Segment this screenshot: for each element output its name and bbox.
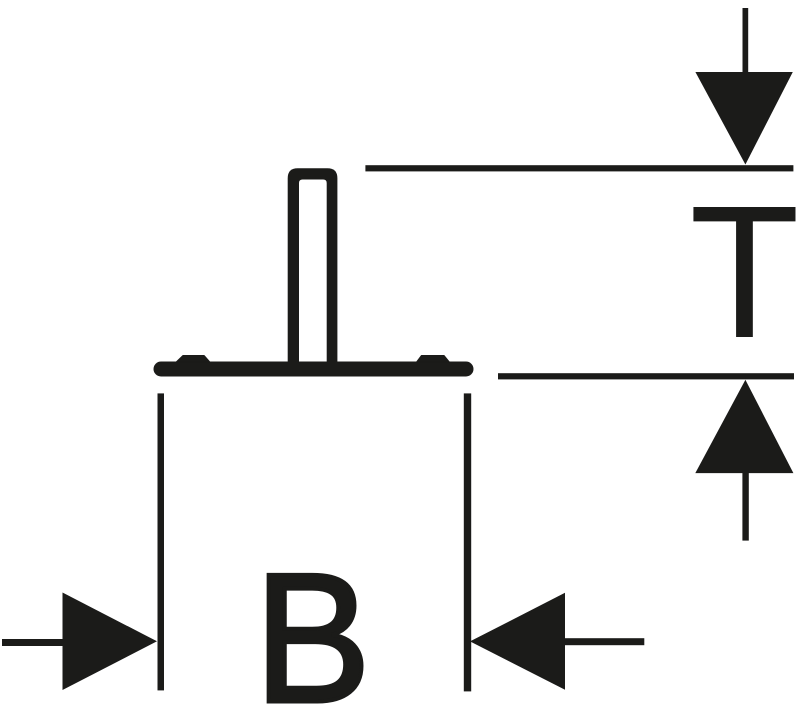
lower dimension line (plate bottom level) <box>498 373 794 379</box>
svg-text:B: B <box>254 536 371 706</box>
right arrow tail <box>565 638 644 645</box>
svg-text:T: T <box>689 167 799 378</box>
right bump <box>417 356 449 362</box>
left bump <box>177 356 210 362</box>
upper dimension line (top of tab level) <box>365 165 793 171</box>
up arrow tail <box>742 470 748 541</box>
left extension line <box>158 393 165 690</box>
right extension line <box>464 393 471 691</box>
left arrow tail <box>2 639 64 646</box>
base plate <box>154 362 474 377</box>
tab outline (vertical pin) <box>288 168 338 376</box>
right arrow head <box>470 593 565 690</box>
left arrow head <box>63 593 158 691</box>
down arrow head <box>695 72 792 165</box>
down arrow tail <box>743 8 749 78</box>
up arrow head <box>695 380 793 473</box>
